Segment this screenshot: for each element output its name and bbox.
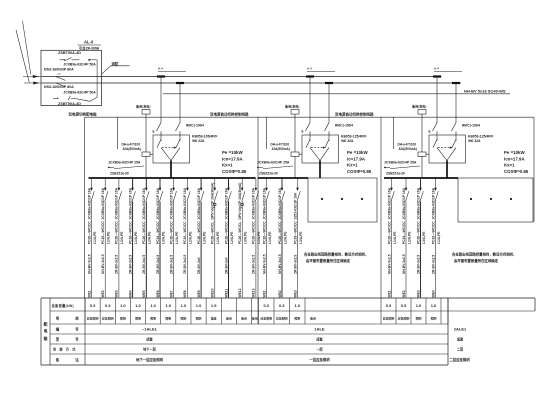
svg-text:PC20—WC/CC: PC20—WC/CC	[197, 221, 201, 244]
svg-text:一层: 一层	[316, 346, 323, 351]
svg-text:0.3: 0.3	[401, 303, 407, 308]
svg-text:A.4: A.4	[307, 67, 312, 71]
svg-text:1.0: 1.0	[165, 303, 171, 308]
svg-text:COSΦ=0.85: COSΦ=0.85	[504, 169, 529, 174]
svg-text:PC20—WC/CC: PC20—WC/CC	[170, 221, 174, 244]
svg-text:L2/A,PE: L2/A,PE	[230, 231, 234, 244]
svg-text:应急照明: 应急照明	[102, 315, 114, 320]
svg-text:JCXB9a-63C/1P 16A: JCXB9a-63C/1P 16A	[156, 187, 160, 219]
svg-text:L1/A,PE: L1/A,PE	[216, 231, 220, 244]
svg-text:PC20—WC/CC: PC20—WC/CC	[387, 221, 391, 244]
svg-text:1.0: 1.0	[150, 303, 156, 308]
svg-text:照明: 照明	[431, 315, 437, 320]
svg-text:PC16—WC/CC: PC16—WC/CC	[101, 221, 105, 244]
svg-text:L1/A,PE: L1/A,PE	[257, 231, 261, 244]
svg-text:2ALE1: 2ALE1	[454, 327, 467, 332]
svg-text:WE13: WE13	[252, 288, 256, 297]
svg-text:ZR-BV-3x4: ZR-BV-3x4	[224, 257, 228, 274]
svg-text:Icn=17.9A: Icn=17.9A	[222, 156, 243, 161]
svg-text:DH-a-FT/100: DH-a-FT/100	[122, 143, 141, 147]
svg-text:ZR-BV-3x2.5: ZR-BV-3x2.5	[156, 255, 160, 274]
svg-text:WE2: WE2	[278, 290, 282, 297]
svg-text:WE9: WE9	[197, 290, 201, 297]
svg-text:NS3-160N/3P 80A: NS3-160N/3P 80A	[44, 68, 74, 72]
svg-text:0.3: 0.3	[279, 303, 285, 308]
svg-text:备用(发电): 备用(发电)	[135, 104, 150, 109]
svg-text:L2/A,PE: L2/A,PE	[148, 231, 152, 244]
svg-text:JCXB9a-63C/1P 16A: JCXB9a-63C/1P 16A	[101, 187, 105, 219]
svg-text:PC16—WC/CC: PC16—WC/CC	[156, 221, 160, 244]
svg-text:0.3: 0.3	[90, 303, 96, 308]
svg-text:成套: 成套	[457, 336, 464, 341]
svg-text:L1/A,PE: L1/A,PE	[268, 231, 272, 244]
svg-text:WE6: WE6	[156, 290, 160, 297]
svg-text:0.3: 0.3	[105, 303, 111, 308]
svg-text:PC20—WC/CC: PC20—WC/CC	[142, 221, 146, 244]
svg-text:NH-BV-3x2.5: NH-BV-3x2.5	[387, 254, 391, 274]
svg-text:32A(500mA): 32A(500mA)	[272, 147, 290, 151]
svg-text:PC16—WC/CC: PC16—WC/CC	[431, 221, 435, 244]
svg-text:照明: 照明	[150, 315, 156, 320]
svg-text:应急照明: 应急照明	[398, 315, 410, 320]
svg-text:Pe =10kW: Pe =10kW	[347, 150, 368, 155]
svg-text:ZR-BV-3x2.5: ZR-BV-3x2.5	[416, 255, 420, 274]
svg-text:设备容量(kW): 设备容量(kW)	[52, 303, 74, 308]
svg-text:JCXB9a-63C/1P 16A: JCXB9a-63C/1P 16A	[416, 187, 420, 219]
svg-text:PC20—WC/CC: PC20—WC/CC	[416, 221, 420, 244]
svg-text:双电源自动切换控制线路: 双电源自动切换控制线路	[209, 112, 249, 117]
svg-text:地下一层应急照明: 地下一层应急照明	[136, 357, 164, 362]
svg-text:L1/A,PE: L1/A,PE	[175, 231, 179, 244]
svg-text:L1/A,PE: L1/A,PE	[437, 231, 441, 244]
svg-text:ZR-BV-3x2.5: ZR-BV-3x2.5	[142, 255, 146, 274]
svg-text:L1/A,PE: L1/A,PE	[93, 231, 97, 244]
svg-text:应急照明: 应急照明	[260, 315, 272, 320]
svg-text:各支路出线回路容量相同，敷设方式相同，: 各支路出线回路容量相同，敷设方式相同，	[303, 252, 368, 257]
svg-text:应急照明: 应急照明	[383, 315, 395, 320]
svg-text:应急照明: 应急照明	[87, 315, 99, 320]
svg-text:ZR-BV-3x2.5: ZR-BV-3x2.5	[115, 255, 119, 274]
svg-text:JCXB9a-63C/1P 16A: JCXB9a-63C/1P 16A	[87, 187, 91, 219]
svg-text:PC20—WC/CC: PC20—WC/CC	[87, 221, 91, 244]
svg-text:备用: 备用	[240, 315, 247, 320]
svg-text:PC20—WC/CC: PC20—WC/CC	[278, 221, 282, 244]
svg-text:PC20—WC/CL: PC20—WC/CL	[211, 222, 215, 244]
svg-text:照明: 照明	[294, 315, 300, 320]
svg-text:PC16—WC/CC: PC16—WC/CC	[402, 221, 406, 244]
svg-text:DPN Vigi/2P 16A(30mA): DPN Vigi/2P 16A(30mA)	[238, 183, 242, 220]
svg-text:双电源自动切换控制线路: 双电源自动切换控制线路	[334, 112, 374, 117]
svg-text:−1ALE1: −1ALE1	[142, 327, 158, 332]
svg-text:1.5: 1.5	[211, 303, 217, 308]
svg-text:备用: 备用	[251, 315, 258, 320]
svg-text:Kx=1: Kx=1	[504, 163, 515, 168]
svg-text:配: 配	[44, 322, 48, 327]
svg-text:NS3-160N/3P 80A: NS3-160N/3P 80A	[44, 85, 74, 89]
svg-text:PC16—WC/CC: PC16—WC/CC	[128, 221, 132, 244]
svg-text:DH-a-FT/100: DH-a-FT/100	[271, 143, 290, 147]
svg-text:A.4: A.4	[158, 67, 163, 71]
svg-text:备用(发电): 备用(发电)	[284, 104, 299, 109]
svg-text:WE4: WE4	[431, 290, 435, 297]
svg-text:JCXB9a-63C/4P 50A: JCXB9a-63C/4P 50A	[63, 62, 96, 66]
svg-text:JCXB9a-63C/1P 16A: JCXB9a-63C/1P 16A	[224, 187, 228, 219]
svg-text:KB053-125/4P/F: KB053-125/4P/F	[341, 135, 366, 139]
svg-text:4P: 4P	[428, 130, 432, 133]
svg-text:Pe =10kW: Pe =10kW	[504, 150, 525, 155]
svg-text:ZSB15Ja-30: ZSB15Ja-30	[259, 171, 278, 175]
svg-text:WE3: WE3	[416, 290, 420, 297]
svg-text:COSΦ=0.85: COSΦ=0.85	[347, 169, 372, 174]
svg-text:L3/A,PE: L3/A,PE	[244, 231, 248, 244]
svg-text:照明: 照明	[196, 315, 202, 320]
svg-text:备用(发电): 备用(发电)	[411, 104, 426, 109]
svg-text:JCXB9a-63C/4P 25A: JCXB9a-63C/4P 25A	[384, 160, 417, 164]
svg-text:各支路出线回路容量相同，敷设方式相同，: 各支路出线回路容量相同，敷设方式相同，	[451, 252, 516, 257]
svg-text:32A(500mA): 32A(500mA)	[123, 147, 141, 151]
svg-text:WE1: WE1	[387, 290, 391, 297]
svg-text:RMC1-100/4: RMC1-100/4	[462, 123, 480, 127]
svg-text:消防: 消防	[112, 61, 119, 66]
svg-text:1.0: 1.0	[294, 303, 300, 308]
svg-text:JCXB9a-63C/1P 16A: JCXB9a-63C/1P 16A	[197, 187, 201, 219]
svg-text:S251-63C/1P 16A: S251-63C/1P 16A	[293, 192, 297, 219]
svg-text:WE11: WE11	[224, 289, 228, 298]
svg-text:DH-a-FT/100: DH-a-FT/100	[398, 143, 417, 147]
svg-text:双电源切换配电箱: 双电源切换配电箱	[68, 111, 97, 116]
svg-text:照明: 照明	[181, 315, 187, 320]
svg-text:备: 备	[55, 357, 60, 362]
svg-text:KB053-125/4P/F: KB053-125/4P/F	[468, 135, 493, 139]
svg-text:RMC1-100/4: RMC1-100/4	[335, 123, 353, 127]
svg-text:ZR-BV-3x2.5: ZR-BV-3x2.5	[170, 255, 174, 274]
svg-text:WE12: WE12	[238, 288, 242, 297]
svg-text:1ALE: 1ALE	[314, 327, 325, 332]
svg-text:L3/A,PE: L3/A,PE	[161, 231, 165, 244]
svg-text:PC20—WC/CC: PC20—WC/CC	[115, 221, 119, 244]
svg-text:NH-BV-3x2.5: NH-BV-3x2.5	[278, 254, 282, 274]
svg-text:4P: 4P	[301, 130, 305, 133]
svg-text:WE8: WE8	[183, 290, 187, 297]
svg-text:JCXB9a-63C/1P 16A: JCXB9a-63C/1P 16A	[128, 187, 132, 219]
svg-text:L2/A,PE: L2/A,PE	[107, 231, 111, 244]
svg-text:NH-BV-3x2.5: NH-BV-3x2.5	[101, 254, 105, 274]
svg-text:ZR-BV-3x2.5: ZR-BV-3x2.5	[252, 255, 256, 274]
svg-text:JCXB9a-63C/1P 16A: JCXB9a-63C/1P 16A	[402, 187, 406, 219]
svg-text:1.0: 1.0	[431, 303, 437, 308]
svg-text:JCXB9a-63C/4P 25A: JCXB9a-63C/4P 25A	[108, 160, 141, 164]
svg-text:照明: 照明	[416, 315, 422, 320]
svg-text:A.4: A.4	[434, 67, 439, 71]
svg-text:ZR-BV-3x2.5: ZR-BV-3x2.5	[431, 255, 435, 274]
svg-text:L1/A,PE: L1/A,PE	[134, 231, 138, 244]
svg-text:L1/A,PE: L1/A,PE	[393, 231, 397, 244]
svg-text:PC20—WC/CC: PC20—WC/CC	[224, 221, 228, 244]
svg-text:/N0 32A: /N0 32A	[468, 139, 481, 143]
svg-text:JCXB9a-63C/1P 16A: JCXB9a-63C/1P 16A	[431, 187, 435, 219]
svg-text:RMC1-100/4: RMC1-100/4	[186, 123, 204, 127]
svg-text:1.0: 1.0	[181, 303, 187, 308]
svg-text:二层: 二层	[457, 346, 464, 351]
svg-text:备用: 备用	[225, 315, 232, 320]
svg-text:JCXB9a-63C/1P 16A: JCXB9a-63C/1P 16A	[115, 187, 119, 219]
svg-text:4P: 4P	[152, 130, 156, 133]
svg-text:ZR-BV-3x2.5: ZR-BV-3x2.5	[128, 255, 132, 274]
svg-text:WE3: WE3	[293, 290, 297, 297]
svg-text:1.0: 1.0	[416, 303, 422, 308]
svg-text:L2/A,PE: L2/A,PE	[407, 231, 411, 244]
svg-text:PC20—WC/CC: PC20—WC/CC	[262, 221, 266, 244]
svg-text:PC16—WC/CC: PC16—WC/CC	[183, 221, 187, 244]
svg-text:WE1: WE1	[262, 290, 266, 297]
svg-text:Icn=17.9A: Icn=17.9A	[504, 156, 525, 161]
svg-text:JCXB9a-63C/1P 16A: JCXB9a-63C/1P 16A	[387, 187, 391, 219]
svg-text:L3/A,PE: L3/A,PE	[120, 231, 124, 244]
svg-text:KB053-105/4P/F: KB053-105/4P/F	[192, 135, 217, 139]
svg-text:电: 电	[44, 329, 48, 334]
svg-text:引自ZR-300B: 引自ZR-300B	[79, 46, 100, 51]
svg-text:WE3: WE3	[115, 290, 119, 297]
svg-text:成套: 成套	[146, 336, 153, 341]
svg-text:AL-0: AL-0	[84, 40, 94, 45]
svg-text:PC16—WC/CC: PC16—WC/CC	[293, 221, 297, 244]
svg-text:WE5: WE5	[142, 290, 146, 297]
svg-text:JCXB9a-63C/1P 16A: JCXB9a-63C/1P 16A	[252, 187, 256, 219]
svg-text:Pe =10kW: Pe =10kW	[222, 150, 243, 155]
svg-text:NH-BV-3x2.5: NH-BV-3x2.5	[262, 254, 266, 274]
svg-text:0.3: 0.3	[386, 303, 392, 308]
svg-text:WE10: WE10	[211, 288, 215, 297]
svg-text:L3/A,PE: L3/A,PE	[422, 231, 426, 244]
svg-text:L2/A,PE: L2/A,PE	[189, 231, 193, 244]
svg-text:NH-BV-3x2.5: NH-BV-3x2.5	[87, 254, 91, 274]
svg-text:L3/A,PE: L3/A,PE	[202, 231, 206, 244]
svg-text:ZR-BV-3x4: ZR-BV-3x4	[197, 257, 201, 274]
svg-text:一层应急照明: 一层应急照明	[309, 357, 330, 362]
svg-text:ZR-BV-3x2.5: ZR-BV-3x2.5	[183, 255, 187, 274]
svg-text:ZSBT50A-4D: ZSBT50A-4D	[58, 51, 81, 55]
svg-text:WE2: WE2	[402, 290, 406, 297]
svg-text:WE4: WE4	[128, 290, 132, 297]
svg-text:JCXB9a-63C/4P 50A: JCXB9a-63C/4P 50A	[63, 91, 96, 95]
svg-text:L3/A,PE: L3/A,PE	[299, 231, 303, 244]
svg-text:JCXB9a-63C/1P 16A: JCXB9a-63C/1P 16A	[278, 187, 282, 219]
svg-text:1.0: 1.0	[135, 303, 141, 308]
svg-text:应急照明: 应急照明	[276, 315, 288, 320]
svg-text:L2/A,PE: L2/A,PE	[283, 231, 287, 244]
svg-text:箱: 箱	[44, 336, 48, 341]
svg-text:WE7: WE7	[170, 290, 174, 297]
svg-text:备用: 备用	[309, 315, 316, 320]
svg-text:DPN Vigi/2P 16A(30mA): DPN Vigi/2P 16A(30mA)	[211, 183, 215, 220]
svg-text:COSΦ=0.85: COSΦ=0.85	[222, 169, 247, 174]
svg-text:ZSB15Ja-30: ZSB15Ja-30	[386, 171, 405, 175]
svg-text:32A(500mA): 32A(500mA)	[399, 147, 417, 151]
svg-text:1.0: 1.0	[120, 303, 126, 308]
svg-text:ZSBT50A-4D: ZSBT50A-4D	[58, 102, 81, 106]
svg-text:成套: 成套	[316, 336, 323, 341]
svg-text:安装方式: 安装方式	[53, 347, 79, 352]
svg-text:Kx=1: Kx=1	[222, 163, 233, 168]
svg-text:1.0: 1.0	[196, 303, 202, 308]
svg-text:JCXB9a-63C/1P 16A: JCXB9a-63C/1P 16A	[183, 187, 187, 219]
svg-text:Kx=1: Kx=1	[347, 163, 358, 168]
svg-text:0.3: 0.3	[263, 303, 269, 308]
svg-text:二层应急照明: 二层应急照明	[449, 357, 470, 362]
svg-text:WE1: WE1	[87, 290, 91, 297]
svg-text:NH-BV 5x16 SC40-WS: NH-BV 5x16 SC40-WS	[464, 88, 506, 93]
svg-text:插座: 插座	[211, 315, 217, 320]
svg-text:用: 用	[55, 316, 60, 321]
svg-text:NH-BV-3x2.5: NH-BV-3x2.5	[402, 254, 406, 274]
svg-text:由平面布置数量所在区域确定: 由平面布置数量所在区域确定	[306, 258, 351, 263]
svg-text:PC20—WC/CL: PC20—WC/CL	[238, 222, 242, 244]
svg-text:ZSB15Ja-30: ZSB15Ja-30	[110, 171, 129, 175]
svg-text:照明: 照明	[120, 315, 126, 320]
svg-text:JCXB9a-63C/4P 25A: JCXB9a-63C/4P 25A	[257, 160, 290, 164]
svg-text:ZR-BV-3x2.5: ZR-BV-3x2.5	[293, 255, 297, 274]
svg-text:照明: 照明	[135, 315, 141, 320]
svg-text:Ic=17.9A: Ic=17.9A	[347, 156, 366, 161]
svg-text:照明: 照明	[165, 315, 171, 320]
svg-text:JCXB9a-63C/1P 16A: JCXB9a-63C/1P 16A	[262, 187, 266, 219]
svg-text:WE2: WE2	[101, 290, 105, 297]
svg-text:PC20—WC/CC: PC20—WC/CC	[252, 221, 256, 244]
svg-text:JCXB9a-63C/1P 16A: JCXB9a-63C/1P 16A	[142, 187, 146, 219]
svg-text:JCXB9a-63C/1P 16A: JCXB9a-63C/1P 16A	[170, 187, 174, 219]
svg-text:/N0 22A: /N0 22A	[192, 139, 205, 143]
svg-text:地下一层: 地下一层	[143, 346, 157, 351]
svg-text:由平面布置数量所在区域确定: 由平面布置数量所在区域确定	[454, 258, 499, 263]
svg-text:/N0 32A: /N0 32A	[341, 139, 354, 143]
